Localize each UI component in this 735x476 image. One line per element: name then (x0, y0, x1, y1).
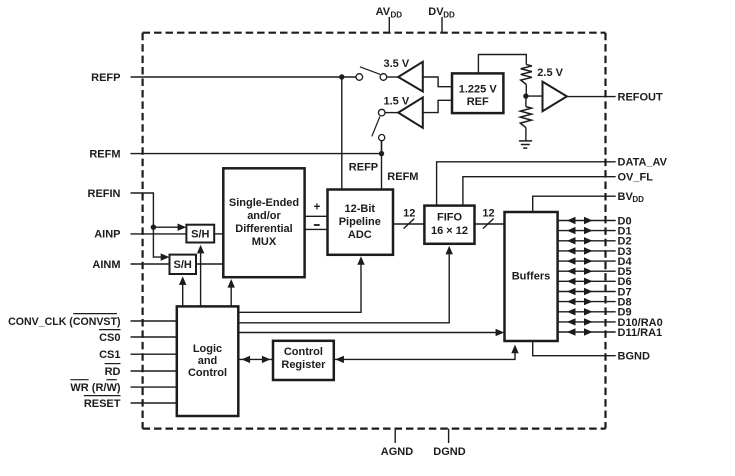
svg-text:REFOUT: REFOUT (618, 91, 664, 103)
pin DVDD (441, 17, 443, 33)
wire ControlRegister-Buffers (334, 351, 515, 359)
svg-text:3.5 V: 3.5 V (384, 58, 410, 70)
box S/H 2 (AINM) (170, 255, 197, 274)
wire data D1 (558, 230, 616, 232)
wire clock to S/H 2 (182, 284, 184, 306)
svg-text:Control: Control (284, 346, 323, 358)
wire BVDD (533, 196, 616, 212)
svg-text:CS0: CS0 (99, 332, 120, 344)
svg-text:MUX: MUX (252, 236, 277, 248)
wire data D3 (558, 250, 616, 252)
wire WR (131, 386, 178, 388)
overline CS0 (99, 329, 120, 331)
resistor R1 (521, 65, 532, 85)
svg-text:2.5 V: 2.5 V (537, 67, 563, 79)
svg-text:REFM: REFM (387, 171, 418, 183)
svg-text:WR (R/W): WR (R/W) (70, 382, 120, 394)
wire clock to MUX (230, 287, 232, 306)
svg-text:12: 12 (403, 208, 415, 220)
svg-text:S/H: S/H (191, 229, 209, 241)
svg-text:BGND: BGND (618, 351, 650, 363)
svg-text:12-Bit: 12-Bit (345, 203, 376, 215)
wire SW1 to buffer (387, 76, 399, 78)
svg-text:RESET: RESET (84, 398, 121, 410)
svg-text:16 × 12: 16 × 12 (431, 225, 468, 237)
svg-text:DD: DD (391, 11, 403, 20)
wire REFM net (131, 153, 382, 155)
svg-text:CONV_CLK (CONVST): CONV_CLK (CONVST) (8, 316, 120, 328)
box Single-Ended and/or Differential MUX (223, 168, 304, 277)
chip boundary dashed box (143, 33, 606, 429)
wire BGND (533, 341, 616, 356)
wire RESET (131, 402, 178, 404)
svg-text:ADC: ADC (348, 229, 372, 241)
wire REFOUT (567, 96, 616, 98)
pin AGND (394, 429, 396, 443)
wire REF box to resistor divider (478, 55, 526, 74)
wire OV_FL (463, 177, 616, 206)
wire data D11/RA1 (558, 331, 616, 333)
svg-text:Register: Register (281, 359, 326, 371)
pin AVDD (388, 17, 390, 33)
wire data D9 (558, 311, 616, 313)
svg-text:REFP: REFP (91, 72, 120, 84)
svg-text:Pipeline: Pipeline (339, 216, 381, 228)
buffer 2.5 V (REFOUT) (543, 82, 567, 112)
svg-text:AINM: AINM (92, 259, 120, 271)
svg-text:Control: Control (188, 367, 227, 379)
wire data D6 (558, 280, 616, 282)
svg-text:RD: RD (105, 366, 121, 378)
junction divider node (523, 93, 528, 98)
svg-text:DD: DD (632, 195, 644, 204)
svg-text:REF: REF (467, 96, 489, 108)
buffer 3.5 V (398, 62, 423, 92)
wire REFIN net (131, 193, 162, 257)
svg-text:AGND: AGND (381, 446, 413, 458)
wire control to ADC (238, 265, 361, 313)
wire data D4 (558, 260, 616, 262)
switch SW1 (3.5V to REFP) (356, 74, 363, 81)
wire control to Buffers (238, 332, 496, 334)
box Control Register (273, 341, 334, 380)
overline CONVST (73, 313, 117, 315)
wire control to FIFO (238, 254, 449, 323)
wire SW2 lower contact stub (381, 141, 383, 154)
switch SW2 (1.5V to REFM) (378, 109, 385, 116)
overline RD (105, 363, 121, 365)
wire CS0 (131, 336, 178, 338)
box S/H 1 (AINP) (186, 225, 214, 243)
wire CONV_CLK (131, 320, 178, 322)
overline RESET (84, 395, 121, 397)
svg-text:1.5 V: 1.5 V (384, 95, 410, 107)
wire REFP net (131, 76, 357, 78)
box FIFO 16x12 (424, 206, 474, 244)
svg-text:Differential: Differential (235, 223, 292, 235)
wire S/H1 to MUX (214, 233, 223, 235)
junction REFIN branch (151, 225, 156, 230)
svg-text:BV: BV (618, 191, 634, 203)
junction REFP tap to ADC (339, 74, 344, 79)
svg-text:REFP: REFP (349, 162, 378, 174)
svg-text:Logic: Logic (193, 343, 222, 355)
wire SW2 to buffer (385, 112, 398, 114)
resistor R2 (525, 96, 527, 107)
svg-text:and: and (198, 355, 218, 367)
overline W in R/W (106, 379, 116, 381)
svg-text:+: + (314, 202, 321, 214)
svg-text:1.225 V: 1.225 V (459, 84, 498, 96)
svg-text:D11/RA1: D11/RA1 (618, 327, 663, 339)
wire AINM (131, 263, 170, 265)
wire data D7 (558, 291, 616, 293)
svg-text:DD: DD (443, 11, 455, 20)
wire data D2 (558, 240, 616, 242)
svg-text:FIFO: FIFO (437, 212, 462, 224)
wire FIFO to Buffers (12) (475, 223, 505, 225)
buffer 1.5 V (398, 97, 423, 127)
svg-text:DGND: DGND (433, 446, 465, 458)
wire ADC to FIFO (12) (393, 223, 425, 225)
box Buffers (505, 212, 558, 341)
svg-text:AV: AV (376, 6, 391, 18)
svg-text:Buffers: Buffers (512, 271, 551, 283)
box 1.225 V REF (452, 73, 503, 113)
svg-text:and/or: and/or (247, 210, 281, 222)
overline WR (70, 379, 88, 381)
wire buffer1.5 to REF box (423, 100, 452, 112)
box 12-Bit Pipeline ADC (328, 190, 394, 255)
svg-text:Single-Ended: Single-Ended (229, 197, 299, 209)
wire node to 2.5V buffer (526, 95, 543, 97)
wire MUX to ADC (-) (305, 228, 327, 230)
wire data D5 (558, 270, 616, 272)
svg-text:CS1: CS1 (99, 349, 120, 361)
wire data D0 (558, 220, 616, 222)
ground (519, 140, 532, 142)
svg-text:REFIN: REFIN (88, 188, 121, 200)
wire REFIN branch to S/H 1 (153, 226, 178, 228)
wire AINP (131, 233, 187, 235)
svg-text:AINP: AINP (94, 229, 120, 241)
junction REFM tap to ADC (379, 151, 384, 156)
svg-text:S/H: S/H (174, 259, 192, 271)
wire DATA_AV (437, 162, 616, 206)
arrow into S/H 2 (161, 253, 170, 260)
wire MUX to ADC (+) (305, 215, 327, 217)
wire clock to S/H 1 (200, 253, 202, 307)
wire data D8 (558, 301, 616, 303)
wire buffer3.5 to REF box (423, 77, 452, 87)
wire CS1 (131, 353, 178, 355)
svg-text:OV_FL: OV_FL (618, 172, 654, 184)
wire RD (131, 370, 178, 372)
box Logic and Control (177, 306, 239, 416)
wire Logic-ControlRegister bidirectional (238, 358, 273, 360)
svg-text:REFM: REFM (89, 148, 120, 160)
svg-text:DATA_AV: DATA_AV (618, 157, 668, 169)
wire data D10/RA0 (558, 321, 616, 323)
svg-text:DV: DV (428, 6, 444, 18)
wire S/H2 to MUX (196, 263, 223, 265)
pin DGND (448, 429, 450, 443)
svg-text:12: 12 (482, 208, 494, 220)
label minus (314, 224, 320, 226)
